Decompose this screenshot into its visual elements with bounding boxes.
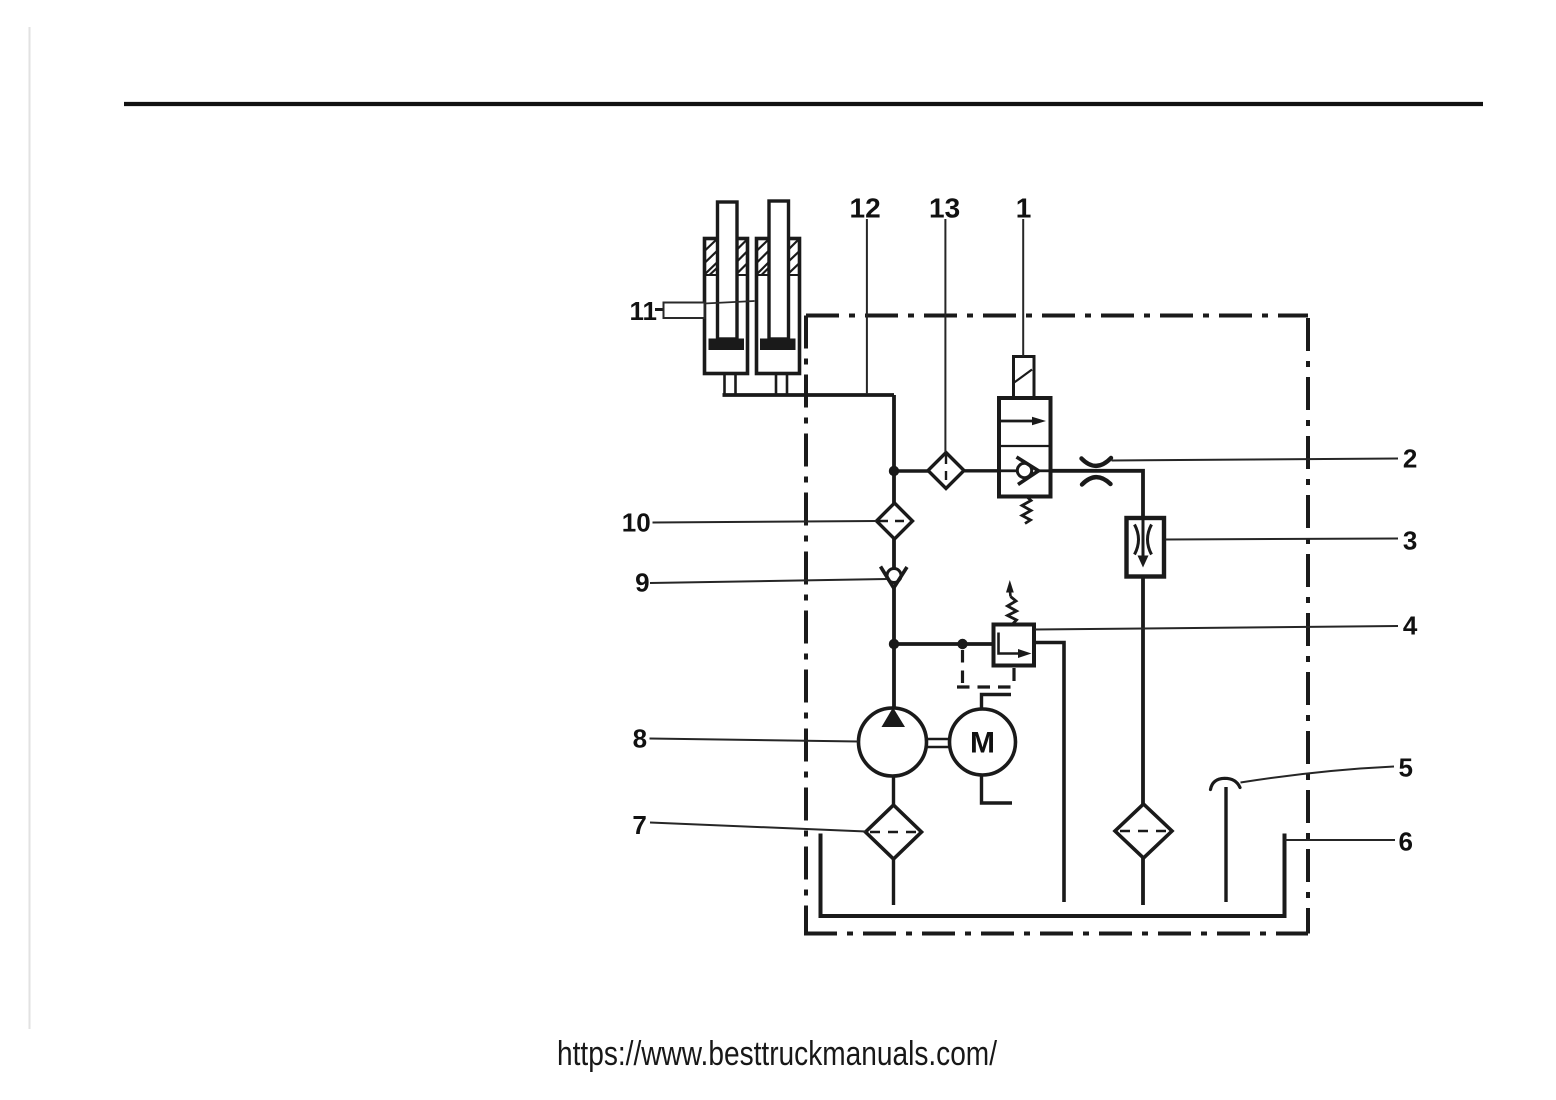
faint page edge line <box>29 27 31 1029</box>
flow control valve (item 3) <box>1127 518 1165 577</box>
restrictor (orifice, item 2) <box>1082 458 1112 485</box>
valve U1 (solenoid shut-off valve, item 1) <box>999 357 1051 524</box>
leader lines <box>650 219 1399 840</box>
return filter (diamond, unlabeled) <box>1115 804 1172 858</box>
svg-text:https://www.besttruckmanuals.c: https://www.besttruckmanuals.com/ <box>557 1035 997 1073</box>
cylinder 11a (left) <box>705 202 748 394</box>
svg-text:12: 12 <box>850 193 881 224</box>
wire: relief valve outlet to tank <box>1034 643 1064 903</box>
wire: cylinder supply pipe <box>723 393 895 397</box>
wire: pump suction line <box>892 776 895 905</box>
svg-text:9: 9 <box>635 568 649 598</box>
divider <box>1001 445 1049 447</box>
leader 10 <box>653 521 877 523</box>
cylinder 11b (right) <box>757 201 800 394</box>
shaft <box>927 739 950 747</box>
svg-text:10: 10 <box>622 508 651 538</box>
svg-text:3: 3 <box>1403 525 1417 555</box>
spring of relief valve <box>1008 597 1017 625</box>
breather pipe 5 <box>1224 787 1227 902</box>
filter 10 (diamond) <box>877 503 913 539</box>
wire: main vertical pressure line <box>892 395 896 708</box>
check valve (item 9) <box>881 567 908 589</box>
top horizontal rule <box>124 102 1483 106</box>
svg-text:M: M <box>970 727 995 760</box>
leader 12 <box>866 219 868 394</box>
leader 3 <box>1166 539 1399 540</box>
wire: filter 13 to valve 1 <box>964 469 1000 472</box>
spring below valve 1 <box>1022 497 1031 524</box>
leader 1 <box>1022 219 1024 357</box>
check valve position <box>1001 469 1017 472</box>
svg-text:8: 8 <box>633 724 647 754</box>
item number labels <box>622 193 1418 857</box>
leader 8 <box>650 739 859 742</box>
svg-text:1: 1 <box>1016 193 1032 224</box>
filter 13 (diamond) <box>928 453 964 489</box>
leader 2 <box>1112 459 1399 461</box>
enclosure boundary (tank unit, dash-dot) <box>804 316 1308 934</box>
leader 7 <box>650 823 866 832</box>
svg-text:6: 6 <box>1398 827 1412 857</box>
node: pilot junction <box>957 639 967 649</box>
leader 5 <box>1241 767 1395 783</box>
tank <box>821 834 1285 917</box>
pump (item 8) <box>859 708 927 777</box>
open position arrow <box>1001 420 1035 423</box>
wire: pilot line (dashed) of relief valve <box>961 650 964 687</box>
leader 13 <box>944 219 946 453</box>
svg-text:7: 7 <box>632 810 646 840</box>
motor M <box>927 695 1016 804</box>
svg-text:11: 11 <box>629 296 657 326</box>
node: junction at filter 13 line <box>889 466 899 476</box>
wire: return line (right) <box>1051 471 1144 905</box>
leader 11 (dash, box and line) <box>655 301 755 318</box>
suction strainer (item 7, diamond) <box>866 805 922 859</box>
wire: junction to filter 13 <box>894 469 932 472</box>
node: junction above pump <box>889 639 899 649</box>
svg-text:4: 4 <box>1403 611 1418 641</box>
leader 4 <box>1035 626 1398 630</box>
solenoid <box>1014 357 1035 399</box>
relief valve (item 4) <box>994 580 1035 666</box>
svg-text:5: 5 <box>1398 753 1412 783</box>
leader 9 <box>650 579 887 583</box>
wire: line to relief valve <box>894 642 994 646</box>
svg-text:2: 2 <box>1403 444 1417 474</box>
leader 6 <box>1285 839 1395 841</box>
valve body <box>999 398 1051 497</box>
svg-text:13: 13 <box>929 193 960 224</box>
